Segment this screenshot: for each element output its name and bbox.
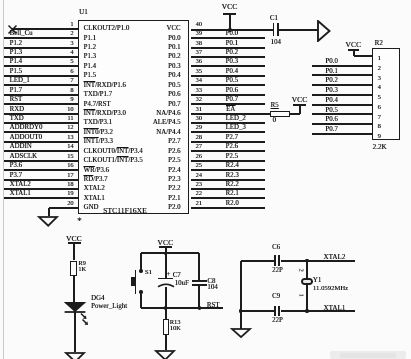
junction pin40/VCC <box>228 28 232 32</box>
contact dot S1 top <box>139 269 143 273</box>
pin number 9 <box>70 97 73 103</box>
wire pin 40 VCC rail left <box>191 29 273 31</box>
net label ADDIN (pin 14) <box>10 144 32 151</box>
pin number 13 <box>67 135 73 141</box>
wire pin 27 net P2.6 <box>191 150 265 152</box>
mcu U1 part number STC11F16XE <box>103 207 147 215</box>
wire pin 10 net RXD <box>4 113 79 115</box>
capacitor C1 plates <box>273 23 275 36</box>
net label P0.6 (R2 pin 8) <box>325 117 337 124</box>
net label R2.2 (pin 23) <box>226 182 239 189</box>
wire pin 14 net ADDIN <box>4 150 79 152</box>
net label P3.7 (pin 17) <box>10 173 22 180</box>
pin number 30 <box>196 116 202 122</box>
pin name P0.5 (pin 34) <box>168 83 180 90</box>
power symbol VCC at pin 40 <box>222 3 238 11</box>
pin number 16 <box>67 163 73 169</box>
wire LED to ground <box>74 312 76 352</box>
wire pin 7 net LED_1 <box>4 84 79 86</box>
wire pin 26 net P2.5 <box>191 160 265 162</box>
wire pin 30 net LED_2 <box>191 122 265 124</box>
junction C7/bottom rail <box>164 306 168 310</box>
wire pin 32 net P0.7 <box>191 103 265 105</box>
pin name P2.6 (pin 27) <box>168 149 180 156</box>
pin name P2.5 (pin 26) <box>168 158 180 165</box>
wire crystal ground rail <box>240 261 242 329</box>
net label EA (pin 31) <box>226 107 235 114</box>
label C1 <box>270 16 278 23</box>
wire pin 34 net P0.5 <box>191 84 265 86</box>
pin number 36 <box>196 59 202 65</box>
pin number 10 <box>67 107 73 113</box>
ground below LED DG4 <box>64 351 86 359</box>
pin number 14 <box>67 144 73 150</box>
net label P0.1 (R2 pin 3) <box>325 69 337 76</box>
pin number 27 <box>196 144 202 150</box>
pin name left row 17 (pin 17) <box>84 177 108 184</box>
wire net P0.7 to R2 pin 9 <box>312 133 372 135</box>
R2 pin number 6 <box>378 105 381 112</box>
pin name left row 1 (pin 1) <box>84 26 130 33</box>
net label R2.0 (pin 21) <box>226 201 239 208</box>
pin name P0.2 (pin 37) <box>168 54 180 61</box>
pin number 31 <box>196 107 202 113</box>
wire pin 3 net P1.2 <box>4 47 79 49</box>
wire pin 35 net P0.4 <box>191 75 265 77</box>
net label LED_1 (pin 7) <box>10 78 30 85</box>
wire net P0.4 to R2 pin 6 <box>312 104 372 106</box>
net label P0.7 (R2 pin 9) <box>325 127 337 134</box>
pin number 28 <box>196 135 202 141</box>
pin number 40 <box>196 22 202 28</box>
value 22P (C9) <box>272 318 283 325</box>
wire crystal lower lead <box>306 285 308 311</box>
net label P1.2 (pin 3) <box>10 41 22 48</box>
net label ADDRDY0 (pin 12) <box>10 125 43 132</box>
net label XTAL2 <box>323 254 345 261</box>
pin name ALE/P4.5 (pin 30) <box>153 120 181 127</box>
ground below R13 <box>154 349 176 359</box>
crystal Y1 body <box>301 278 313 285</box>
net label LED_2 (pin 30) <box>226 116 246 123</box>
mcu U1 refdes <box>79 9 88 16</box>
net label RST <box>207 303 220 310</box>
net label P0.2 (pin 37) <box>226 50 238 57</box>
capacitor C6 plates <box>274 255 276 266</box>
wire XTAL2 net right <box>281 260 356 262</box>
wire pin 40 VCC rail right <box>279 29 318 31</box>
pin number 33 <box>196 88 202 94</box>
wire XTAL2 net left <box>241 260 274 262</box>
wire crystal upper lead <box>306 261 308 278</box>
pin name left row 6 (pin 6) <box>84 73 96 80</box>
value 10K (R13) <box>170 326 181 332</box>
net label P1.7 (pin 8) <box>10 88 22 95</box>
junction XTAL1/ground rail <box>239 309 243 313</box>
pin number 34 <box>196 78 202 84</box>
label Power_Light <box>91 304 127 311</box>
value 2.2K (R2) <box>373 144 387 151</box>
pin name left row 7 (pin 7) <box>84 83 126 90</box>
value 11.0592MHz (Y1) <box>313 286 348 293</box>
net label Bell_Cu (pin 2) <box>10 31 33 38</box>
wire pin 17 net P3.7 <box>4 179 79 181</box>
ground of crystal circuit <box>230 327 252 340</box>
net label ADDOUT0 (pin 13) <box>10 135 42 142</box>
wire S1 branch lower <box>140 293 142 308</box>
wire net P0.3 to R2 pin 5 <box>312 94 372 96</box>
pin name left row 11 (pin 11) <box>84 120 113 127</box>
power symbol VCC at reset circuit <box>157 239 173 247</box>
wire pin 11 net TXD <box>4 122 79 124</box>
value 104 (C8) <box>207 285 217 292</box>
label C8 <box>207 279 215 286</box>
wire reset top rail <box>141 252 199 254</box>
wire pin 19 net XTAL1 <box>4 197 79 199</box>
LED DG4 symbol <box>62 301 88 325</box>
wire reset bottom rail RST <box>141 307 223 309</box>
wire R5 to VCC <box>290 113 300 115</box>
wire net P0.6 to R2 pin 8 <box>312 123 372 125</box>
pin number 23 <box>196 182 202 188</box>
wire R13 to ground <box>165 335 167 351</box>
wire pin 21 net R2.0 <box>191 207 265 209</box>
wire C7 branch lower <box>165 287 167 308</box>
pin number 3 <box>70 41 73 47</box>
wire net P0.0 to R2 pin 2 <box>312 65 372 67</box>
pin name left row 15 (pin 15) <box>84 158 143 165</box>
pin number 19 <box>67 191 73 197</box>
pin name P0.1 (pin 38) <box>168 45 180 52</box>
junction XTAL1/crystal <box>305 309 309 313</box>
pin number 32 <box>196 97 202 103</box>
wire bottom rail to R13 <box>165 308 167 319</box>
R2 pin number 1 <box>378 56 381 63</box>
contact dot S1 bottom <box>139 290 143 294</box>
wire C8 branch upper <box>198 253 200 281</box>
net label TXD (pin 11) <box>10 116 24 123</box>
pin number 24 <box>196 173 202 179</box>
net label P1.4 (pin 5) <box>10 59 22 66</box>
R2 pin number 3 <box>378 76 381 83</box>
wire pin 12 net ADDRDY0 <box>4 131 79 133</box>
pin name P0.6 (pin 33) <box>168 92 180 99</box>
net label P2.6 (pin 27) <box>226 144 238 151</box>
wire pin 25 net R2.4 <box>191 169 265 171</box>
pin name P0.3 (pin 36) <box>168 64 180 71</box>
plus sign C7 <box>166 270 170 278</box>
wire pin 20 GND horizontal <box>49 207 79 209</box>
pin number 7 <box>70 78 73 84</box>
pin number 8 <box>70 88 73 94</box>
capacitor C9 plates <box>274 306 276 317</box>
pin number 38 <box>196 41 202 47</box>
net label P2.7 (pin 28) <box>226 135 238 142</box>
pin name P0.4 (pin 35) <box>168 73 180 80</box>
net label P1.5 (pin 6) <box>10 69 22 76</box>
buffer/arrow symbol at C1 output <box>317 20 331 42</box>
pin name P2.4 (pin 25) <box>168 168 180 175</box>
net label R2.4 (pin 25) <box>226 163 239 170</box>
pin number 25 <box>196 163 202 169</box>
label DG4 <box>91 296 104 303</box>
pin name left row 14 (pin 14) <box>84 149 143 156</box>
junction VCC/top rail <box>164 252 168 256</box>
pin number 20 <box>67 201 73 207</box>
value 1K (R9) <box>78 267 86 273</box>
wire pin 39 net P0.0 <box>191 37 265 39</box>
R2 pin number 9 <box>378 134 381 141</box>
wire C8 branch lower <box>198 285 200 308</box>
wire pin 16 net P3.6 <box>4 169 79 171</box>
pin number 4 <box>70 50 73 56</box>
pin name VCC (pin 40) <box>166 26 180 33</box>
label C6 <box>272 245 280 252</box>
wire pin 18 net XTAL2 <box>4 188 79 190</box>
pin name P2.2 (pin 23) <box>168 186 180 193</box>
pin name P0.0 (pin 39) <box>168 36 180 43</box>
pin name left row 10 (pin 10) <box>84 111 126 118</box>
wire pin 2 net Bell_Cu <box>4 37 79 39</box>
pin number 2 <box>70 31 73 37</box>
pin number 22 <box>196 191 202 197</box>
pin name left row 18 (pin 18) <box>84 186 105 193</box>
label R9 <box>78 261 86 267</box>
wire pin 29 net LED_3 <box>191 131 265 133</box>
net label P0.1 (pin 38) <box>226 41 238 48</box>
R2 pin number 8 <box>378 124 381 131</box>
R2 pin number 4 <box>378 85 381 92</box>
wire pin 6 net P1.5 <box>4 75 79 77</box>
net label P0.3 (pin 36) <box>226 59 238 66</box>
no-connect X on pin 1 <box>7 24 18 35</box>
pin number 35 <box>196 69 202 75</box>
wire pin 15 net ADSCLK <box>4 160 79 162</box>
label C7 <box>173 273 181 280</box>
value 104 (C1) <box>271 40 281 47</box>
pin name P2.0 (pin 21) <box>168 205 180 212</box>
resistor network R2 body <box>372 48 400 140</box>
wire pin 33 net P0.6 <box>191 94 265 96</box>
pin name left row 20 (pin 20) <box>84 205 99 212</box>
wire pin 23 net R2.2 <box>191 188 265 190</box>
net label P0.0 (R2 pin 2) <box>325 59 337 66</box>
label Y1 <box>313 278 321 285</box>
net label P1.3 (pin 4) <box>10 50 22 57</box>
net label RST (pin 9) <box>10 97 23 104</box>
wire pin 20 GND vertical <box>48 208 50 216</box>
pin number 11 <box>67 116 73 122</box>
pin name left row 13 (pin 13) <box>84 139 113 146</box>
wire R2 pin 1 to VCC <box>354 55 373 57</box>
net label P0.3 (R2 pin 5) <box>325 88 337 95</box>
pin number 12 <box>67 125 73 131</box>
net label P2.5 (pin 26) <box>226 154 238 161</box>
net label P0.5 (R2 pin 7) <box>325 108 337 115</box>
junction XTAL2/crystal <box>305 259 309 263</box>
wire pin 4 net P1.3 <box>4 56 79 58</box>
net label XTAL1 <box>323 305 345 312</box>
R2 pin number 2 <box>378 66 381 73</box>
wire net P0.5 to R2 pin 7 <box>312 113 372 115</box>
resistor R5 body <box>270 111 290 117</box>
wire net P0.2 to R2 pin 4 <box>312 84 372 86</box>
pin number 26 <box>196 154 202 160</box>
value 0 (R5) <box>273 118 276 125</box>
wire pin 8 net P1.7 <box>4 94 79 96</box>
junction C8/bottom rail <box>198 306 202 310</box>
pin number 29 <box>196 125 202 131</box>
power symbol VCC at R5 <box>292 96 308 104</box>
pin name NA/P4.4 (pin 29) <box>156 130 180 137</box>
pin name left row 5 (pin 5) <box>84 64 96 71</box>
R2 pin number 5 <box>378 95 381 102</box>
net label P0.4 (R2 pin 6) <box>325 98 337 105</box>
wire pin 24 net R2.3 <box>191 179 265 181</box>
net label LED_3 (pin 29) <box>226 125 246 132</box>
wire pin 1 (no-connect) <box>12 28 79 30</box>
power symbol VCC at R2 pin 1 <box>345 41 361 49</box>
wire XTAL1 net left <box>241 310 274 312</box>
capacitor C7 plates <box>158 278 173 280</box>
pin name left row 4 (pin 4) <box>84 54 96 61</box>
label C9 <box>272 294 280 301</box>
pin name P2.3 (pin 24) <box>168 177 180 184</box>
net label R2.3 (pin 24) <box>226 173 239 180</box>
wire C7 branch upper <box>165 253 167 278</box>
wire pin 5 net P1.4 <box>4 65 79 67</box>
pin number 37 <box>196 50 202 56</box>
mcu U1 body <box>78 20 189 214</box>
sheet border line <box>3 0 4 359</box>
wire pin 38 net P0.1 <box>191 47 265 49</box>
wire net P0.1 to R2 pin 3 <box>312 74 372 76</box>
pin name left row 8 (pin 8) <box>84 92 113 99</box>
net label P0.4 (pin 35) <box>226 69 238 76</box>
crystal pin number 1 <box>299 292 302 298</box>
value 22P (C6) <box>272 268 283 275</box>
resistor R9 body <box>70 261 76 277</box>
pin name NA/P4.6 (pin 31) <box>156 111 180 118</box>
pin number 18 <box>67 182 73 188</box>
pin number 39 <box>196 31 202 37</box>
crystal pin number 2 <box>299 267 302 273</box>
capacitor C8 plates <box>192 280 207 282</box>
wire pin 28 net P2.7 <box>191 141 265 143</box>
net label P3.6 (pin 16) <box>10 163 22 170</box>
power symbol VCC at R9 <box>66 235 82 243</box>
net label ADSCLK (pin 15) <box>10 154 38 161</box>
label R13 <box>170 320 181 326</box>
net label XTAL2 (pin 18) <box>10 182 31 189</box>
pin name P2.7 (pin 28) <box>168 139 180 146</box>
wire pin 37 net P0.2 <box>191 56 265 58</box>
label S1 <box>145 270 152 277</box>
pin name left row 3 (pin 3) <box>84 45 96 52</box>
wire R9 to LED DG4 <box>73 276 75 302</box>
pin name left row 2 (pin 2) <box>84 36 96 43</box>
wire S1 branch upper <box>140 253 142 271</box>
pin name left row 9 (pin 9) <box>84 102 111 109</box>
net label RXD (pin 10) <box>10 107 25 114</box>
pin number 1 <box>70 22 73 28</box>
label R5 <box>271 103 279 110</box>
pin name P0.7 (pin 32) <box>168 102 180 109</box>
pin number 5 <box>70 59 73 65</box>
wire pin 22 net R2.1 <box>191 197 265 199</box>
pin number 6 <box>70 69 73 75</box>
pin name left row 16 (pin 16) <box>84 168 109 175</box>
wire pin 36 net P0.3 <box>191 65 265 67</box>
net label P0.0 (pin 39) <box>226 31 238 38</box>
switch S1 actuator <box>135 270 137 295</box>
pin name left row 12 (pin 12) <box>84 130 113 137</box>
resistor R13 body <box>163 319 169 335</box>
wire pin 31 EA to R5 <box>191 113 270 115</box>
asterisk mark below U1 <box>77 217 82 226</box>
net label P0.2 (R2 pin 4) <box>325 78 337 85</box>
pin number 17 <box>67 173 73 179</box>
net label XTAL1 (pin 19) <box>10 191 31 198</box>
wire XTAL1 net right <box>281 310 356 312</box>
net label P0.7 (pin 32) <box>226 97 238 104</box>
pin number 21 <box>196 201 202 207</box>
net label R2.1 (pin 22) <box>226 191 239 198</box>
label R2 <box>375 40 383 47</box>
ground below U1 pin 20 <box>37 215 59 228</box>
faint watermark band <box>330 351 406 359</box>
R2 pin number 7 <box>378 115 381 122</box>
pin name P2.1 (pin 22) <box>168 196 180 203</box>
net label P0.5 (pin 34) <box>226 78 238 85</box>
pin number 15 <box>67 154 73 160</box>
wire pin 13 net ADDOUT0 <box>4 141 79 143</box>
pin name left row 19 (pin 19) <box>84 196 105 203</box>
net label P0.6 (pin 33) <box>226 88 238 95</box>
wire pin 9 net RST <box>4 103 79 105</box>
value 10uF (C7) <box>175 281 189 288</box>
